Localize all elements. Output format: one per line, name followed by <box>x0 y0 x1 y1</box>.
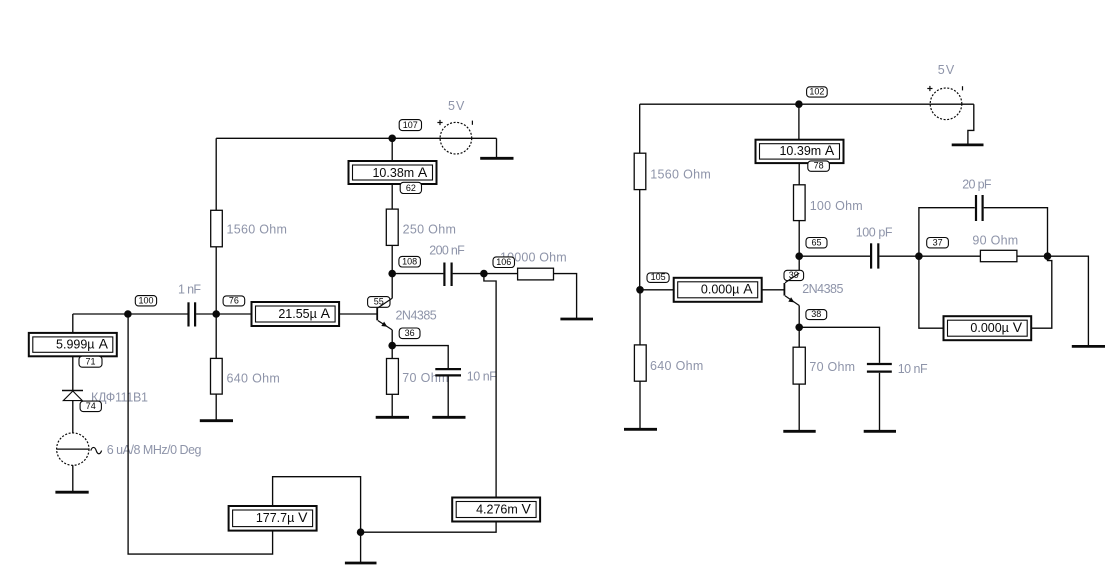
wire node 76 down to R3 <box>215 314 217 358</box>
resistor R7 100 Ohm <box>794 185 806 221</box>
wire C1 right plate to node 76 <box>196 313 252 315</box>
svg-text:2N4385: 2N4385 <box>802 282 843 296</box>
svg-text:106: 106 <box>496 257 511 267</box>
svg-text:76: 76 <box>229 295 239 305</box>
wire node 65 to C4 left plate <box>799 255 870 257</box>
ground under R4 70 Ohm left <box>376 416 409 419</box>
wire right node to ground drop <box>1048 256 1089 345</box>
svg-text:10 nF: 10 nF <box>898 362 928 376</box>
junction node 108 <box>388 270 396 278</box>
svg-text:20 pF: 20 pF <box>962 177 992 191</box>
svg-text:108: 108 <box>402 256 417 266</box>
transistor Q1 2N4385 <box>377 298 392 330</box>
wire top rail right circuit <box>640 103 974 105</box>
node label 38 <box>806 309 827 320</box>
junction node 107 <box>388 135 396 143</box>
junction ground node bottom <box>357 528 365 536</box>
node label 62 <box>400 182 421 193</box>
svg-text:38: 38 <box>811 309 821 319</box>
svg-text:100 Ohm: 100 Ohm <box>810 199 863 213</box>
resistor R5 10000 Ohm horizontal <box>518 268 554 280</box>
wire ammeter 10.39mA bottom to R7 <box>798 163 800 185</box>
node label 106 <box>493 257 515 268</box>
svg-text:71: 71 <box>85 357 95 367</box>
wire top rail left circuit <box>216 137 496 139</box>
wire C4 right plate to node 37 <box>879 255 919 257</box>
ground at output common node <box>345 562 377 565</box>
resistor R8 640 Ohm right <box>634 345 646 381</box>
diode D1 cathode bar <box>62 390 83 392</box>
resistor R10 90 Ohm horizontal <box>980 250 1017 261</box>
wire loop ground node to voltmeter 177.7uV top <box>273 477 361 533</box>
VS2 minus tick <box>962 86 964 90</box>
ground under R3 640 Ohm left <box>200 419 233 422</box>
svg-text:100: 100 <box>138 295 153 305</box>
current source IS1 circle <box>57 433 89 465</box>
svg-text:37: 37 <box>933 237 943 247</box>
resistor R6 1560 Ohm right <box>634 153 646 189</box>
capacitor C1 1 nF <box>189 302 196 326</box>
junction right node of 90 Ohm <box>1044 252 1052 260</box>
svg-text:107: 107 <box>403 120 418 130</box>
svg-text:70 Ohm: 70 Ohm <box>402 371 448 385</box>
junction node 100 <box>124 310 132 318</box>
VS2 plus mark <box>927 86 932 91</box>
wire node 38 right to C6 <box>799 327 879 363</box>
wire Q2 emitter down to node 38 <box>798 306 800 328</box>
IS1 sine mark <box>91 447 102 453</box>
wire IS1 to ground <box>72 465 74 491</box>
ground right of voltmeter loop <box>1072 345 1105 348</box>
wire Q2 collector up to node 65 <box>798 256 800 273</box>
capacitor C3 10 nF left (horizontal plates) <box>435 369 461 375</box>
wire R9 bottom to ground <box>798 384 800 430</box>
wire node 108 to C2 left plate <box>392 273 443 275</box>
svg-text:200 nF: 200 nF <box>429 243 465 257</box>
wire ammeter 21.55uA to Q1 base <box>339 313 377 315</box>
wire left corner down to ammeter 5.999uA <box>72 314 74 333</box>
node label 74 <box>80 401 101 412</box>
svg-text:36: 36 <box>405 328 415 338</box>
capacitor C6 10 nF right (horizontal plates) <box>867 364 892 372</box>
capacitor C2 200 nF <box>444 263 451 287</box>
junction node 105 <box>636 286 644 294</box>
svg-text:90 Ohm: 90 Ohm <box>972 234 1018 248</box>
svg-text:62: 62 <box>406 183 416 193</box>
node label 76 <box>223 295 245 306</box>
ammeter 5.999u A (far left) <box>29 333 117 356</box>
wire node 105 down to R8 <box>639 290 641 345</box>
wire left branch down to R1 <box>215 138 217 210</box>
svg-text:10.38m: 10.38m <box>372 166 414 180</box>
wire R6 bottom to node 105 <box>639 190 641 290</box>
svg-text:640 Ohm: 640 Ohm <box>227 371 280 385</box>
svg-text:A: A <box>99 335 109 351</box>
wire VS2 to ground with jog <box>968 104 974 144</box>
svg-text:0.000µ: 0.000µ <box>970 321 1008 335</box>
wire ammeter 0.000uA to Q2 base <box>761 289 784 291</box>
svg-text:100 pF: 100 pF <box>856 225 893 239</box>
wire ammeter 5.999uA to diode D1 <box>72 356 74 390</box>
wire node 36 down to R4 <box>391 346 393 359</box>
svg-text:74: 74 <box>86 401 96 411</box>
node label 36 <box>399 328 420 339</box>
resistor R3 640 Ohm left <box>211 358 223 394</box>
wire VS1 to ground <box>496 138 498 158</box>
wire R2 bottom to node 108 <box>391 245 393 273</box>
ground under R5 10000 Ohm <box>560 318 593 321</box>
node label 65 <box>806 237 827 248</box>
transistor Q2 2N4385 <box>784 273 799 305</box>
wire signal rail node 100 to C1 <box>73 313 188 315</box>
svg-text:250 Ohm: 250 Ohm <box>403 223 456 237</box>
node label 39 <box>784 270 804 281</box>
wire C6 bottom plate to ground <box>879 373 881 431</box>
svg-text:70 Ohm: 70 Ohm <box>809 360 855 374</box>
wire R4 bottom to ground <box>391 394 393 416</box>
svg-text:A: A <box>743 281 753 297</box>
svg-text:5 V: 5 V <box>448 99 465 113</box>
ground under R8 640 Ohm right <box>624 428 657 431</box>
VS1 plus mark <box>437 120 442 125</box>
wire 20pF loop left side up <box>919 208 975 257</box>
wire ammeter bottom to R2 <box>391 184 393 209</box>
wire Q1 collector up to node 108 <box>391 274 393 299</box>
IS1 diameter line <box>57 448 89 450</box>
wire node 106 to R5 <box>484 273 518 275</box>
ground under R9 70 Ohm right <box>783 430 815 433</box>
wire voltmeter 0.000uV right jog up to right node <box>1031 256 1052 328</box>
svg-text:6 uA/8 MHz/0 Deg: 6 uA/8 MHz/0 Deg <box>107 443 202 457</box>
wire node 36 right to C3 <box>392 346 448 368</box>
wire diode D1 to current source IS1 <box>72 401 74 434</box>
wire node 102 down to ammeter 10.39mA <box>798 104 800 140</box>
wire output jog node 106 down to voltmeter 4.276mV <box>484 274 496 498</box>
wire node 38 down to R9 <box>798 327 800 347</box>
ground under C6 10 nF right <box>864 430 896 433</box>
wire 20pF loop right side down <box>984 208 1048 257</box>
resistor R4 70 Ohm left <box>387 359 399 395</box>
ammeter 0.000u A (right) <box>674 278 762 302</box>
voltmeter 0.000u V (right) <box>944 316 1032 340</box>
node label 78 <box>808 161 830 172</box>
wire voltmeter 177.7uV bottom loop back to node 100 <box>128 314 273 554</box>
wire voltmeter 4.276mV bottom to ground node <box>361 522 497 533</box>
svg-text:4.276m: 4.276m <box>476 502 518 516</box>
svg-text:10.39m: 10.39m <box>779 144 821 158</box>
svg-text:A: A <box>825 142 835 158</box>
junction node 65 <box>795 252 803 260</box>
ground under VS2 <box>952 143 984 146</box>
svg-text:10 nF: 10 nF <box>467 369 497 383</box>
ground under C3 10 nF left <box>432 416 465 419</box>
resistor R9 70 Ohm right <box>793 347 805 384</box>
svg-text:105: 105 <box>651 272 666 282</box>
voltmeter 4.276m V <box>452 498 540 522</box>
resistor R1 1560 Ohm left <box>211 210 223 247</box>
node label 37 <box>927 237 949 248</box>
svg-text:1560 Ohm: 1560 Ohm <box>650 167 711 181</box>
node label 107 <box>399 120 421 131</box>
wire R1 bottom to node 76 <box>215 247 217 314</box>
svg-text:78: 78 <box>814 161 824 171</box>
junction node 38 <box>795 324 803 332</box>
capacitor C4 100 pF <box>871 243 878 268</box>
wire R8 bottom to ground <box>639 381 641 428</box>
wire node 37 to R10 <box>919 255 981 257</box>
svg-text:102: 102 <box>809 87 824 97</box>
wire right circuit left branch down to R6 <box>639 104 641 153</box>
junction node 102 <box>795 100 803 108</box>
svg-text:640 Ohm: 640 Ohm <box>650 359 703 373</box>
ammeter 10.39m A (right, vertical) <box>756 140 844 163</box>
capacitor C5 20 pF <box>976 195 983 221</box>
junction node 106 <box>480 270 488 278</box>
wire R10 right to right node <box>1017 255 1048 257</box>
node label 102 <box>807 87 828 98</box>
ammeter 10.38m A (left, vertical) <box>349 161 437 184</box>
node label 100 <box>135 295 156 306</box>
ground under IS1 <box>55 491 88 494</box>
junction node 36 <box>388 342 396 350</box>
junction node 76 <box>212 310 220 318</box>
svg-text:65: 65 <box>811 237 821 247</box>
node label 71 <box>79 356 102 367</box>
svg-text:A: A <box>321 305 331 321</box>
svg-text:1560 Ohm: 1560 Ohm <box>227 222 287 236</box>
svg-text:V: V <box>522 500 532 516</box>
svg-text:2N4385: 2N4385 <box>396 309 437 323</box>
svg-text:5 V: 5 V <box>938 63 955 77</box>
wire R3 bottom to ground <box>215 394 217 420</box>
node label 105 <box>647 272 669 282</box>
resistor R2 250 Ohm <box>386 209 398 245</box>
wire node 107 down to ammeter 10.38mA <box>391 138 393 161</box>
svg-text:A: A <box>418 164 428 180</box>
wire node 37 down to voltmeter 0.000uV left <box>919 256 944 328</box>
svg-text:177.7µ: 177.7µ <box>256 511 294 525</box>
ammeter 21.55u A (left, horizontal) <box>252 302 340 326</box>
diode D1 triangle <box>63 391 82 401</box>
svg-text:1 nF: 1 nF <box>178 283 201 297</box>
svg-text:0.000µ: 0.000µ <box>701 283 739 297</box>
wire R5 right to ground drop <box>554 274 577 319</box>
wire node 105 to ammeter 0.000uA <box>640 289 674 291</box>
svg-text:V: V <box>1013 319 1023 335</box>
wire ground node to ground symbol <box>360 532 362 562</box>
node label 108 <box>399 256 421 267</box>
VS1 minus tick <box>471 121 473 125</box>
svg-text:5.999µ: 5.999µ <box>56 337 94 351</box>
wire C3 bottom plate to ground <box>447 377 449 417</box>
wire Q1 emitter down to node 36 <box>391 330 393 346</box>
node label 55 <box>368 297 390 308</box>
voltage source VS1 5V circle <box>440 122 472 154</box>
svg-text:V: V <box>298 509 308 525</box>
wire C2 right plate to node 106 <box>453 273 484 275</box>
voltmeter 177.7u V <box>229 506 317 531</box>
wire R7 bottom to node 65 <box>798 221 800 257</box>
voltage source VS2 5V circle <box>930 88 962 120</box>
junction node 37 <box>915 252 923 260</box>
svg-text:21.55µ: 21.55µ <box>278 307 316 321</box>
ground under VS1 <box>480 157 513 160</box>
